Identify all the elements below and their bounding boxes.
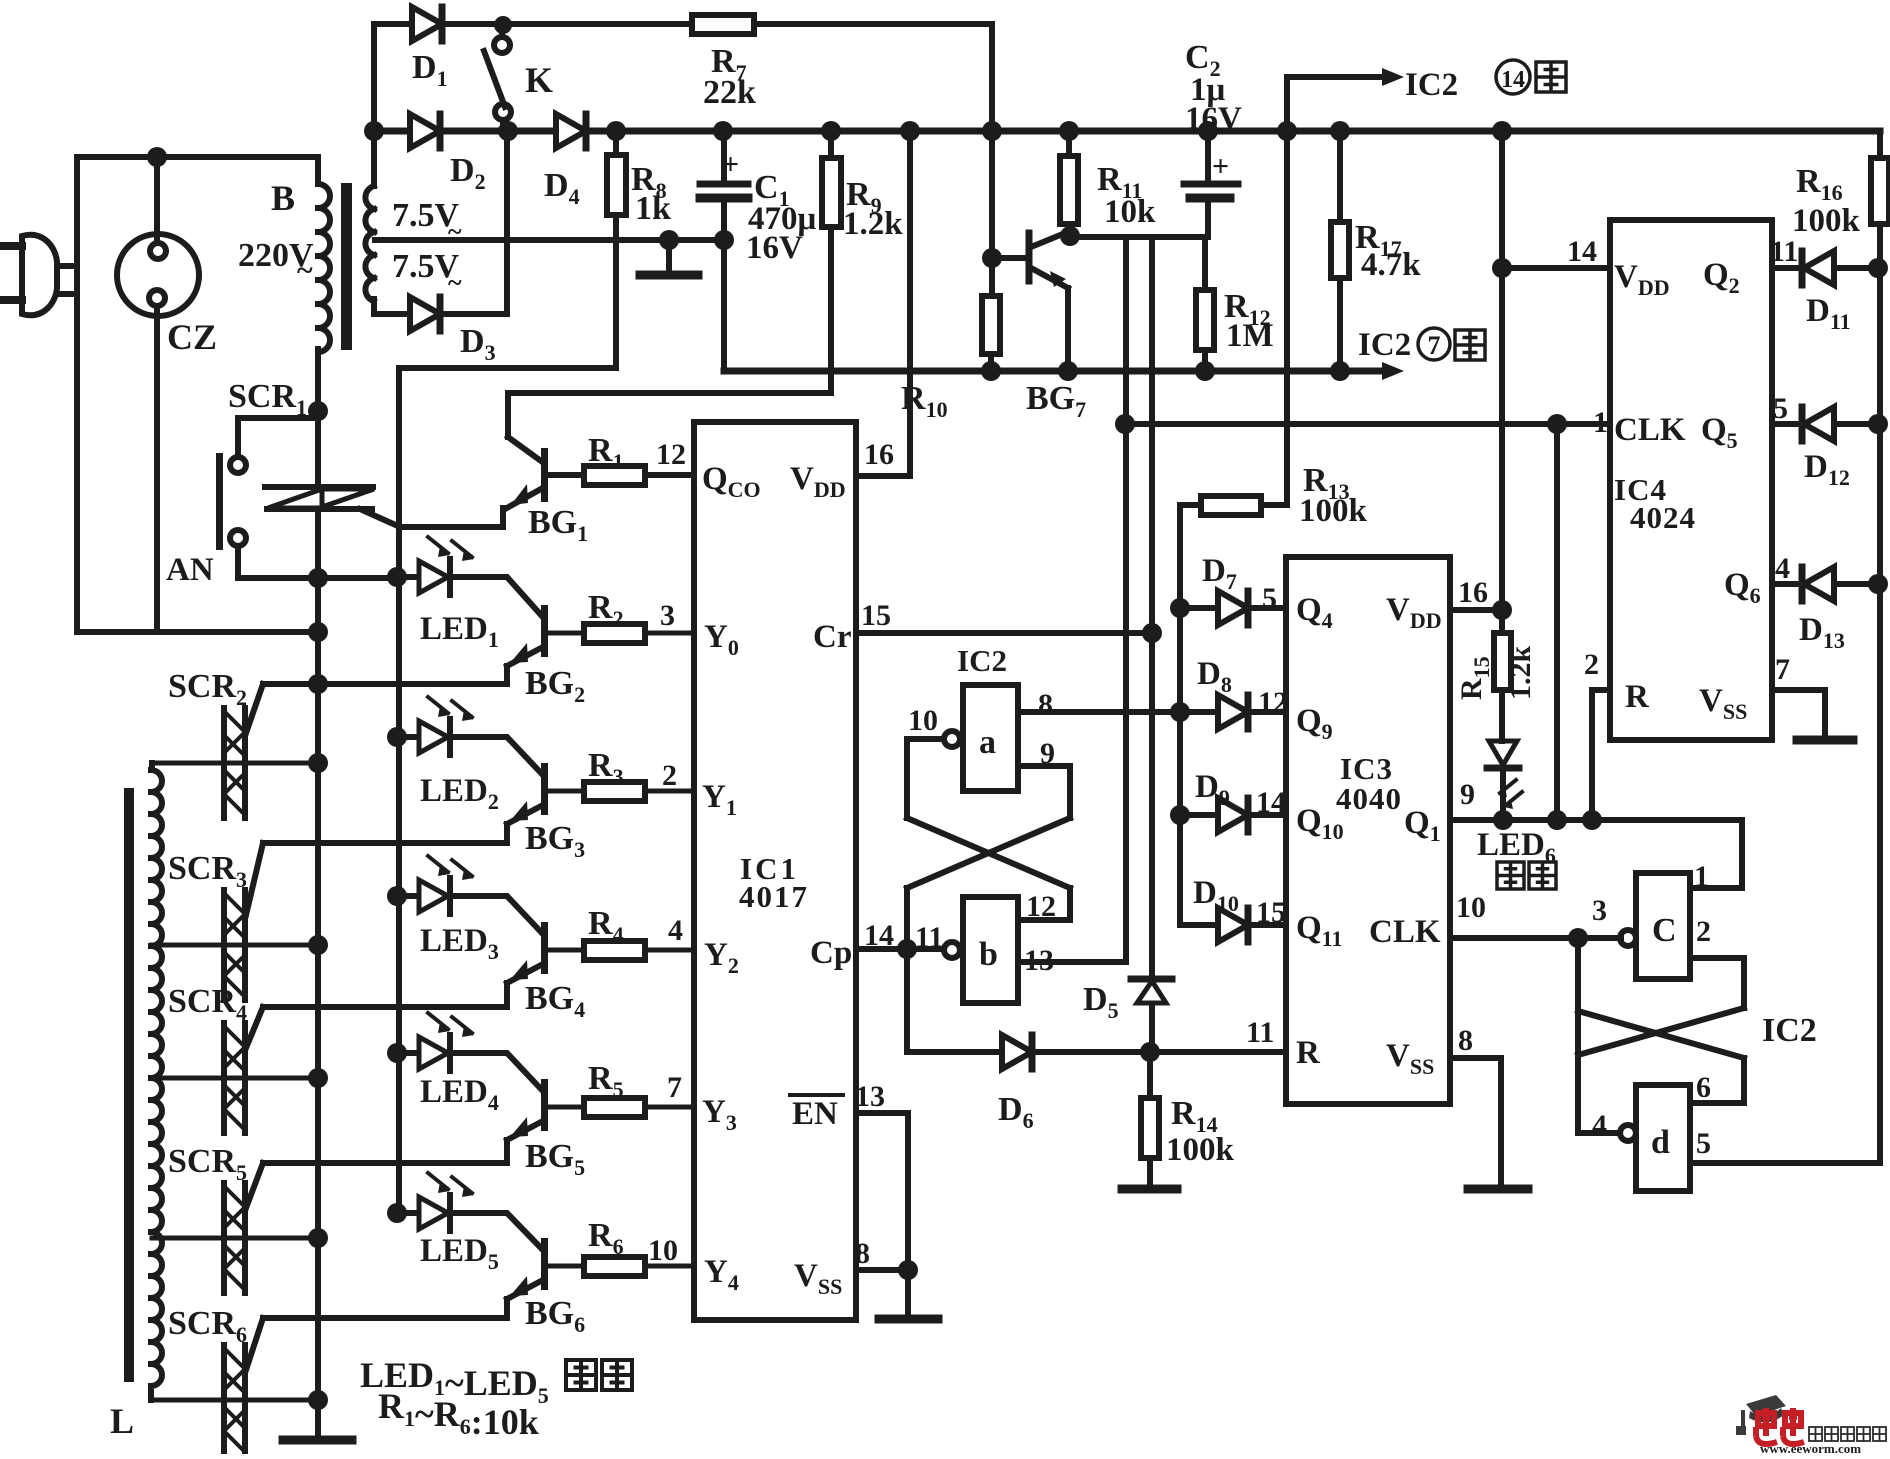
inductor L core bar bbox=[124, 788, 134, 1382]
IC IC3 4040 box bbox=[1286, 557, 1450, 1104]
node IC4 Vdd tap bbox=[1492, 258, 1512, 278]
svg-text:SCR1: SCR1 bbox=[228, 378, 307, 420]
node SCR4/column bbox=[308, 1068, 328, 1088]
wire IC1 Vdd pin16 bbox=[856, 131, 910, 476]
svg-text:SCR6: SCR6 bbox=[168, 1305, 247, 1347]
node Q1/IC4-R riser bbox=[1582, 810, 1602, 830]
node D7 bbox=[1170, 598, 1190, 618]
socket CZ bbox=[117, 157, 199, 632]
node R17/ground rail bbox=[1330, 361, 1350, 381]
thyristor SCR3 bbox=[224, 890, 245, 1000]
resistor R10 bbox=[982, 296, 1000, 354]
svg-text:~: ~ bbox=[448, 268, 462, 297]
diode D11 bbox=[1802, 251, 1834, 285]
svg-text:1.2k: 1.2k bbox=[843, 206, 903, 242]
svg-text:100k: 100k bbox=[1792, 203, 1861, 239]
svg-text:IC2: IC2 bbox=[957, 643, 1007, 678]
resistor R12 1M bbox=[1196, 290, 1214, 350]
label lv (green) char bbox=[1497, 862, 1524, 889]
thyristor SCR2 bbox=[224, 708, 245, 818]
svg-text:3: 3 bbox=[660, 599, 675, 632]
svg-text:LED3: LED3 bbox=[420, 923, 499, 964]
diode D9 bbox=[1218, 798, 1248, 832]
label circled 7 bbox=[1418, 328, 1450, 360]
svg-text:11: 11 bbox=[915, 921, 943, 954]
wire C input 2 cross-couple bbox=[1578, 958, 1744, 1133]
node LED1 anode bbox=[387, 567, 407, 587]
node secondary top / rail bbox=[364, 121, 384, 141]
wire C2 column to D5 bbox=[1149, 237, 1155, 1050]
watermark site name characters bbox=[1809, 1427, 1822, 1441]
node AN/column bbox=[308, 568, 328, 588]
label se (color) char bbox=[1529, 862, 1556, 889]
wire IC4 Vss pin7 to ground bbox=[1772, 690, 1825, 737]
wire b input 13 to clock node bbox=[1018, 237, 1126, 962]
wire R12 leads bbox=[1202, 237, 1208, 371]
svg-text:L: L bbox=[110, 1401, 134, 1441]
node junction top rail / CZ bbox=[147, 147, 167, 167]
svg-text:14: 14 bbox=[1567, 235, 1597, 268]
node K top on rail bbox=[494, 16, 512, 34]
svg-text:100k: 100k bbox=[1166, 1132, 1235, 1168]
resistor R11 10k bbox=[1060, 156, 1078, 224]
diode D10 bbox=[1218, 908, 1248, 942]
wire Q5 pin5 row bbox=[1772, 421, 1880, 427]
wire D9 row y815 bbox=[1180, 812, 1286, 818]
svg-text:4024: 4024 bbox=[1630, 500, 1696, 535]
ground G5 (IC3 Vss) bbox=[1468, 1185, 1528, 1194]
LED LED6 green (cathode down) bbox=[1487, 741, 1522, 809]
diode D2 bbox=[410, 114, 440, 148]
wire Q1 pin9 row y820 bbox=[1450, 690, 1742, 820]
transformer B core bbox=[341, 183, 352, 350]
thyristor SCR6 bbox=[224, 1345, 245, 1455]
plug P1 (mains plug) bbox=[4, 235, 77, 315]
wire Cp pin14 row bbox=[856, 946, 944, 952]
wire Cr pin15 row y633 bbox=[856, 630, 1152, 636]
wire SCR6 row bbox=[152, 1398, 318, 1403]
resistor R16 100k bbox=[1871, 158, 1889, 224]
svg-text:5: 5 bbox=[1773, 392, 1788, 425]
diode D7 bbox=[1218, 591, 1248, 625]
svg-text:10k: 10k bbox=[1104, 194, 1156, 230]
wire SCR3 gate row bbox=[246, 843, 507, 915]
svg-text:www.eeworm.com: www.eeworm.com bbox=[1760, 1441, 1861, 1454]
wire R10 bottom lead bbox=[988, 354, 994, 371]
svg-text:AN: AN bbox=[166, 552, 214, 588]
pushbutton AN bbox=[216, 418, 246, 578]
wire D3 row y314 bbox=[374, 311, 507, 317]
label jiao character 14 bbox=[1536, 62, 1566, 92]
wire R2 leads bbox=[548, 631, 694, 636]
node SCR5/column bbox=[308, 1228, 328, 1248]
svg-text:CLK: CLK bbox=[1369, 914, 1441, 950]
wire left rail x77 bbox=[74, 157, 80, 632]
svg-text:12: 12 bbox=[656, 438, 686, 471]
wire D10 row y925 bbox=[1180, 922, 1286, 928]
svg-text:10: 10 bbox=[648, 1234, 678, 1267]
svg-text:16: 16 bbox=[1458, 576, 1488, 609]
wire SCR4 row bbox=[152, 1076, 318, 1081]
label se char 2 bbox=[602, 1360, 632, 1390]
transistor BG7 bbox=[992, 231, 1070, 371]
wire IC4 R pin2 riser bbox=[1592, 690, 1610, 820]
svg-text:11: 11 bbox=[1246, 1016, 1274, 1049]
resistor R14 100k bbox=[1141, 1098, 1159, 1158]
svg-text:CLK: CLK bbox=[1614, 412, 1686, 448]
wire R15 to LED6 bbox=[1499, 690, 1505, 741]
svg-text:d: d bbox=[1651, 1124, 1670, 1161]
ground G1 (mid-tap) bbox=[666, 240, 672, 272]
watermark graduation cap icon bbox=[1736, 1395, 1786, 1435]
wire R7 output riser x992 bbox=[989, 24, 995, 296]
ground G2 (SCR column) bbox=[283, 1436, 352, 1445]
svg-text:100k: 100k bbox=[1299, 493, 1368, 529]
wire d output riser bbox=[1578, 938, 1620, 1133]
svg-text:22k: 22k bbox=[703, 74, 756, 111]
wire R14 leads bbox=[1147, 1052, 1153, 1186]
transistor BG5 bbox=[450, 1053, 548, 1163]
node C1 top on rail bbox=[713, 121, 733, 141]
gate IC2-a output bubble pin10 bbox=[944, 731, 960, 747]
LED LED3 red bbox=[397, 856, 474, 914]
diode D12 bbox=[1802, 407, 1834, 441]
wire a output 10 cross-couple bbox=[907, 739, 1070, 920]
svg-text:4.7k: 4.7k bbox=[1361, 247, 1421, 283]
svg-text:7: 7 bbox=[1428, 331, 1441, 360]
capacitor C1 470u/16V bbox=[700, 131, 748, 371]
svg-text:IC2: IC2 bbox=[1358, 327, 1411, 363]
node ground tap bbox=[659, 230, 679, 250]
svg-text:13: 13 bbox=[855, 1080, 885, 1113]
wire R9 leads bbox=[828, 131, 834, 393]
wire SCR5 row bbox=[152, 1236, 318, 1241]
diode D1 bbox=[412, 7, 442, 41]
node LED5 anode bbox=[387, 1203, 407, 1223]
svg-text:Cp: Cp bbox=[810, 935, 852, 971]
svg-text:12: 12 bbox=[1026, 890, 1056, 923]
resistor R17 4.7k bbox=[1331, 222, 1349, 278]
svg-text:10: 10 bbox=[908, 704, 938, 737]
node transformer/SCR1 bbox=[308, 401, 328, 421]
wire Q2 pin11 row bbox=[1772, 265, 1880, 271]
svg-text:15: 15 bbox=[1256, 896, 1286, 929]
watermark chongchong red characters bbox=[1756, 1408, 1777, 1444]
thyristor SCR4 bbox=[224, 1023, 245, 1133]
thyristor SCR5 bbox=[224, 1183, 245, 1293]
diode D6 bbox=[1002, 1035, 1032, 1069]
wire D7 row y608 bbox=[1180, 605, 1286, 611]
wire far-right column x1880 bbox=[1690, 131, 1880, 1163]
wire R6 leads bbox=[548, 1264, 694, 1269]
svg-text:2: 2 bbox=[662, 759, 677, 792]
svg-text:~: ~ bbox=[297, 254, 313, 287]
resistor R15 1.2k bbox=[1494, 633, 1511, 690]
wire C output 3 cross-couple to d input 6 bbox=[1578, 1011, 1744, 1103]
ground G4 (R14) bbox=[1122, 1185, 1177, 1194]
svg-text:1.2k: 1.2k bbox=[1504, 646, 1537, 701]
wire R3 leads bbox=[548, 789, 694, 794]
LED LED4 red bbox=[397, 1013, 474, 1071]
wire main +V rail y131 bbox=[373, 128, 1880, 135]
svg-text:4: 4 bbox=[1775, 552, 1790, 585]
node R12/ground rail bbox=[1195, 361, 1215, 381]
node R17 top on rail bbox=[1330, 121, 1350, 141]
ground G3 (IC1 Vss) bbox=[879, 1315, 938, 1324]
wire IC3 clk to C bubble bbox=[1620, 935, 1621, 941]
wire R5 leads bbox=[548, 1105, 694, 1110]
svg-text:11: 11 bbox=[1770, 235, 1798, 268]
wire a-out8 / D8 row y712 bbox=[1018, 709, 1286, 715]
node clock line tap bbox=[1115, 414, 1135, 434]
transistor BG1 bbox=[505, 393, 548, 509]
resistor R2 10k bbox=[584, 624, 645, 643]
wire LED anode column x397 bbox=[396, 368, 402, 1213]
svg-text:16V: 16V bbox=[746, 230, 803, 266]
svg-text:5: 5 bbox=[1696, 1127, 1711, 1160]
switch K bbox=[484, 24, 511, 131]
svg-text:2: 2 bbox=[1584, 648, 1599, 681]
svg-text:6: 6 bbox=[1696, 1071, 1711, 1104]
node Vdd riser on rail bbox=[900, 121, 920, 141]
resistor R5 10k bbox=[584, 1098, 645, 1117]
svg-text:LED4: LED4 bbox=[420, 1074, 499, 1115]
svg-text:4017: 4017 bbox=[739, 879, 809, 914]
svg-text:2: 2 bbox=[1696, 915, 1711, 948]
node R10/ground rail bbox=[981, 361, 1001, 381]
wire BG1 collector line y393 bbox=[508, 390, 831, 396]
node LED4 anode bbox=[387, 1043, 407, 1063]
wire IC3 Vss pin8 to ground bbox=[1450, 1058, 1501, 1186]
gate IC2-C box bbox=[1636, 873, 1690, 979]
wire R4 leads bbox=[548, 948, 694, 953]
diode D5 (cathode up) bbox=[1131, 979, 1172, 1003]
LED LED1 red bbox=[397, 537, 474, 595]
svg-text:7: 7 bbox=[1775, 653, 1790, 686]
resistor R4 10k bbox=[584, 941, 645, 960]
wire oscillator node y237 bbox=[1070, 234, 1208, 240]
transformer B secondary winding 7.5V+7.5V bbox=[365, 24, 374, 314]
LED LED2 red bbox=[397, 697, 474, 755]
node Vdd column on rail bbox=[1492, 121, 1512, 141]
svg-text:15: 15 bbox=[861, 599, 891, 632]
wire top-left rail y157 bbox=[77, 154, 318, 160]
svg-text:1k: 1k bbox=[635, 190, 671, 227]
node Cr / C2-D5 column bbox=[1142, 623, 1162, 643]
resistor R13 100k bbox=[1201, 496, 1261, 515]
svg-text:+: + bbox=[722, 148, 739, 181]
wire D3 to rail riser x507 bbox=[504, 131, 510, 314]
svg-text:SCR4: SCR4 bbox=[168, 983, 247, 1025]
svg-text:LED2: LED2 bbox=[420, 773, 499, 814]
svg-text:16: 16 bbox=[864, 438, 894, 471]
resistor R8 1k bbox=[607, 155, 626, 215]
wire main left column x318 bbox=[315, 411, 321, 1437]
arrow to IC2 pin7 bbox=[1382, 362, 1404, 380]
svg-text:4: 4 bbox=[1592, 1109, 1607, 1142]
node Cp / b-output bbox=[897, 939, 917, 959]
wire R13 leads bbox=[1180, 502, 1287, 508]
svg-text:IC2: IC2 bbox=[1762, 1012, 1817, 1049]
wire SCR4 gate row bbox=[246, 1007, 507, 1048]
node D9 bbox=[1170, 805, 1190, 825]
svg-text:8: 8 bbox=[855, 1237, 870, 1270]
node D12 bbox=[1868, 414, 1888, 434]
wire CZ return row y632 bbox=[77, 629, 318, 635]
capacitor C2 1u/16V bbox=[1184, 131, 1238, 237]
svg-text:10: 10 bbox=[1456, 891, 1486, 924]
transistor BG2 bbox=[450, 577, 548, 684]
node R11 top on rail bbox=[1059, 121, 1079, 141]
wire secondary mid-tap rail y240 bbox=[375, 237, 723, 243]
node C1/mid-tap bbox=[714, 230, 734, 250]
svg-text:8: 8 bbox=[1038, 688, 1053, 721]
svg-text:LED1: LED1 bbox=[420, 611, 499, 652]
svg-text:5: 5 bbox=[1262, 582, 1277, 615]
node D5/D6/R14 bbox=[1140, 1042, 1160, 1062]
node CLK/d-output riser bbox=[1568, 928, 1588, 948]
wire SCR2 row bbox=[152, 761, 318, 766]
triac SCR1 symbol bbox=[265, 487, 503, 527]
svg-text:EN: EN bbox=[792, 1096, 838, 1132]
wire ground rail y371 bbox=[724, 368, 1382, 375]
wire R13 pullup riser x1287 bbox=[1284, 131, 1290, 505]
node D11 bbox=[1868, 258, 1888, 278]
node C2 top on rail bbox=[1198, 121, 1218, 141]
svg-text:b: b bbox=[979, 936, 998, 973]
gate IC2-d output bubble pin4 bbox=[1620, 1125, 1636, 1141]
svg-text:LED5: LED5 bbox=[420, 1233, 499, 1274]
wire Q1-clock riser x1557 bbox=[1554, 424, 1560, 820]
node LED3 anode bbox=[387, 886, 407, 906]
node SCR3/column bbox=[308, 935, 328, 955]
wire IC2 pin14 feed bbox=[1287, 77, 1382, 131]
svg-text:R: R bbox=[1625, 679, 1650, 715]
svg-text:4: 4 bbox=[668, 914, 683, 947]
wire AN row y578 bbox=[238, 575, 397, 581]
svg-text:4040: 4040 bbox=[1336, 781, 1402, 816]
svg-text:8: 8 bbox=[1458, 1024, 1473, 1057]
node D2-D3-K junction bbox=[498, 121, 518, 141]
wire Q6 pin4 row bbox=[1772, 581, 1880, 587]
label jiao (pin) character bbox=[1455, 330, 1485, 360]
node R8 top bbox=[606, 121, 626, 141]
wire D6 reset row y1052 bbox=[907, 1049, 1286, 1055]
wire SCR1 top link bbox=[238, 415, 318, 421]
resistor R7 22k bbox=[692, 15, 754, 34]
svg-text:9: 9 bbox=[1460, 778, 1475, 811]
gate IC2-d box bbox=[1636, 1085, 1690, 1191]
node riser/rail bbox=[982, 121, 1002, 141]
wire LED supply link y368 bbox=[399, 365, 616, 371]
gate IC2-C output bubble pin3 bbox=[1620, 930, 1636, 946]
resistor R1 10k bbox=[584, 466, 645, 485]
node BG7 base tap bbox=[982, 248, 1002, 268]
diode D4 bbox=[556, 114, 586, 148]
resistor R6 10k bbox=[584, 1257, 645, 1276]
node IC2-14 riser on rail bbox=[1277, 121, 1297, 141]
arrow to IC2 pin14 bbox=[1382, 68, 1404, 86]
node LED2 anode bbox=[387, 727, 407, 747]
wire SCR3 row bbox=[152, 943, 318, 948]
label circled 14 bbox=[1496, 60, 1530, 94]
LED LED5 red bbox=[397, 1173, 474, 1231]
svg-text:C: C bbox=[1652, 912, 1677, 949]
svg-text:+: + bbox=[1212, 150, 1229, 183]
node LED6/Q1 bbox=[1493, 810, 1513, 830]
svg-text:K: K bbox=[525, 60, 553, 100]
node D8 bbox=[1170, 702, 1190, 722]
node SCR2/column bbox=[308, 753, 328, 773]
wire SCR2 gate row bbox=[246, 684, 507, 733]
resistor R3 10k bbox=[584, 782, 645, 801]
wire IC3 Vdd pin16 bbox=[1450, 131, 1502, 633]
wire IC3 CLK pin10 row bbox=[1450, 935, 1620, 941]
svg-text:a: a bbox=[979, 724, 996, 761]
diode D8 bbox=[1218, 695, 1248, 729]
svg-text:7: 7 bbox=[667, 1071, 682, 1104]
node BG7 emitter/ground rail bbox=[1058, 361, 1078, 381]
wire top rail y24 bbox=[374, 21, 992, 27]
svg-text:CZ: CZ bbox=[167, 317, 217, 357]
wire R11 leads bbox=[1066, 131, 1072, 237]
svg-text:IC2: IC2 bbox=[1405, 67, 1458, 103]
node SCR6/column bbox=[308, 1390, 328, 1410]
node D13 bbox=[1868, 574, 1888, 594]
wire diode-OR column x1180 bbox=[1177, 505, 1183, 925]
wire SCR6 gate row bbox=[246, 1318, 507, 1370]
wire R8 leads bbox=[613, 131, 619, 368]
node G2 row/column bbox=[308, 674, 328, 694]
wire IC4 Vdd pin14 bbox=[1502, 265, 1610, 271]
svg-text:SCR5: SCR5 bbox=[168, 1143, 247, 1185]
wire C input 1 from Q1 row bbox=[1690, 820, 1742, 888]
IC IC1 4017 box bbox=[694, 422, 856, 1320]
transistor BG3 bbox=[450, 737, 548, 843]
svg-text:1: 1 bbox=[1593, 406, 1608, 439]
wire R17 leads bbox=[1337, 131, 1343, 371]
ground G6 (IC4 Vss) bbox=[1797, 736, 1853, 745]
transformer B primary winding 220V bbox=[318, 157, 330, 411]
transistor BG6 bbox=[450, 1213, 548, 1318]
transistor BG4 bbox=[450, 896, 548, 1007]
label hong (red) char bbox=[566, 1360, 596, 1390]
node EN/Vss junction bbox=[898, 1260, 918, 1280]
gate IC2-b box bbox=[963, 897, 1018, 1003]
wire clock row y424 bbox=[1123, 421, 1608, 427]
svg-text:SCR2: SCR2 bbox=[168, 668, 247, 710]
wire R1 leads bbox=[548, 472, 694, 478]
wire b output down to D6 row bbox=[904, 949, 910, 1052]
diode D3 bbox=[410, 297, 440, 331]
diode D13 bbox=[1802, 567, 1834, 601]
inductor L winding bbox=[151, 763, 162, 1400]
wire a input 9 cross-couple bbox=[907, 766, 1070, 949]
wire SCR5 gate row bbox=[246, 1163, 507, 1208]
svg-text:3: 3 bbox=[1592, 894, 1607, 927]
node BG7 collector bbox=[1060, 226, 1080, 246]
IC IC4 4024 box bbox=[1610, 220, 1772, 740]
svg-text:Cr: Cr bbox=[813, 619, 851, 655]
wire d pin5 to right column bbox=[1690, 1160, 1880, 1166]
svg-text:14: 14 bbox=[1256, 786, 1286, 819]
svg-text:16V: 16V bbox=[1185, 101, 1242, 137]
svg-text:R: R bbox=[1296, 1035, 1321, 1071]
svg-text:14: 14 bbox=[1501, 67, 1525, 93]
gate IC2-a box bbox=[963, 685, 1018, 791]
wire IC1 EN pin13 + Vss pin8 to ground bbox=[856, 1113, 908, 1317]
node y632/column bbox=[308, 622, 328, 642]
